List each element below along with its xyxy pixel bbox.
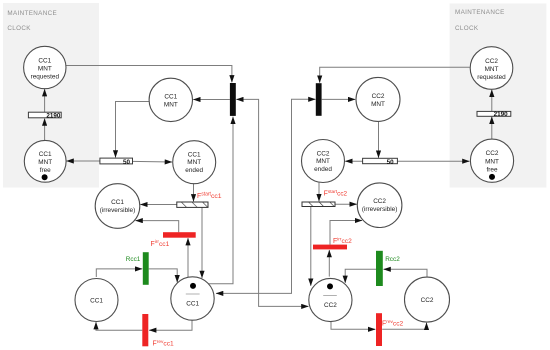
wire CC2 MNT ended -> hatched Fstart cc2 xyxy=(318,183,320,202)
transition Rcc2 green bar xyxy=(376,251,383,286)
transition hatched Fstart cc1 xyxy=(177,202,208,207)
transition 2190 right xyxy=(477,111,511,118)
wire 2190 -> CC1 MNT requested xyxy=(44,89,46,112)
svg-text:CC1: CC1 xyxy=(38,57,51,64)
wire hatched Fstart cc1 -> CC1 irreversible xyxy=(140,204,176,206)
svg-text:CC1: CC1 xyxy=(188,152,201,159)
svg-text:CC1: CC1 xyxy=(39,151,52,158)
svg-text:ended: ended xyxy=(314,166,332,173)
wire black bar T3 -> CC1 MNT xyxy=(193,99,230,101)
svg-text:MNT: MNT xyxy=(485,66,499,73)
svg-text:MNT: MNT xyxy=(485,158,499,165)
place CC1 marked xyxy=(171,277,214,320)
transition 50 right xyxy=(363,158,398,166)
svg-text:Firrcc1: Firrcc1 xyxy=(151,239,170,248)
wire 50 -> CC1 MNT ended xyxy=(133,160,172,163)
svg-text:ended: ended xyxy=(185,167,203,174)
svg-text:2190: 2190 xyxy=(494,111,509,118)
wire Frev cc1 -> CC1 plain xyxy=(96,322,142,330)
wire CC1 marked -> black bar T3 bottom xyxy=(209,117,234,284)
wire hatched Fstart cc2 -> CC2 marked xyxy=(310,206,312,285)
svg-text:MNT: MNT xyxy=(316,158,330,165)
svg-text:requested: requested xyxy=(31,73,60,80)
svg-text:CC2: CC2 xyxy=(372,93,385,100)
place CC2 MNT free xyxy=(470,139,513,182)
place CC2 plain xyxy=(405,277,450,322)
maintenance clock panel right xyxy=(450,4,547,188)
wire CC2 MNT -> 50 right xyxy=(378,122,380,158)
place CC1 irreversible xyxy=(95,184,140,229)
transition Rcc1 green bar xyxy=(143,252,149,285)
transition 2190 left xyxy=(28,112,61,119)
svg-text:(irreversible): (irreversible) xyxy=(100,207,136,214)
wire CC1 marked -> Frev cc1 xyxy=(149,320,192,330)
svg-text:50: 50 xyxy=(387,159,395,166)
svg-text:CC1: CC1 xyxy=(164,94,177,101)
transition hatched Fstart cc2 xyxy=(302,202,335,207)
wire CC2 marked -> Frev cc2 xyxy=(331,322,375,330)
svg-text:Frevcc2: Frevcc2 xyxy=(382,319,403,328)
svg-text:Rcc1: Rcc1 xyxy=(126,256,141,263)
wire CC2 plain -> Rcc2 xyxy=(384,269,427,277)
transition Firr cc1 xyxy=(163,232,196,238)
place CC2 MNT ended xyxy=(302,140,345,183)
wire CC1 marked -> Firr cc1 xyxy=(187,238,189,277)
svg-text:CC1: CC1 xyxy=(90,297,103,304)
place CC1 MNT free xyxy=(24,140,66,182)
place CC1 plain xyxy=(75,279,118,322)
wire 50 -> CC1 MNT free xyxy=(67,160,100,162)
place CC2 irreversible xyxy=(357,183,402,228)
wire black bar T10 -> CC2 MNT xyxy=(322,98,355,100)
svg-text:(irreversible): (irreversible) xyxy=(362,206,398,213)
wire CC1 MNT requested -> black bar T3 xyxy=(66,66,232,83)
transition Frev cc1 xyxy=(142,314,148,346)
wire 50 right -> CC2 MNT ended xyxy=(345,160,362,162)
transition black bar T10 xyxy=(316,83,322,116)
wire read arc CC2 <-> black bar T3 xyxy=(236,99,308,306)
svg-text:Firrcc2: Firrcc2 xyxy=(333,237,352,246)
svg-text:MNT: MNT xyxy=(38,159,52,166)
transition Frev cc2 xyxy=(376,313,382,346)
svg-text:CC2: CC2 xyxy=(324,302,337,309)
wire Rcc2 -> CC2 marked xyxy=(345,269,376,283)
wire CC1 MNT free -> 2190 xyxy=(44,119,46,141)
wire Frev cc2 -> CC2 plain xyxy=(382,323,426,330)
place CC1 MNT requested xyxy=(24,46,66,88)
svg-text:Frevcc1: Frevcc1 xyxy=(153,339,174,348)
svg-text:MAINTENANCE: MAINTENANCE xyxy=(455,9,505,16)
place CC2 MNT xyxy=(356,77,400,121)
wire read arc CC1 <-> black bar T10 xyxy=(216,99,315,293)
svg-text:CC2: CC2 xyxy=(317,150,330,157)
place CC1 MNT xyxy=(149,78,192,121)
svg-text:2190: 2190 xyxy=(46,112,61,119)
svg-text:free: free xyxy=(40,167,51,174)
wire CC2 MNT requested -> black bar T10 xyxy=(320,67,470,82)
svg-text:MNT: MNT xyxy=(38,65,52,72)
wire 50 right -> CC2 MNT free xyxy=(397,160,469,162)
svg-text:CLOCK: CLOCK xyxy=(455,25,479,32)
place CC1 MNT ended xyxy=(173,141,216,184)
svg-text:CC2: CC2 xyxy=(485,58,498,65)
svg-text:MNT: MNT xyxy=(164,102,178,109)
svg-text:CC1: CC1 xyxy=(111,199,124,206)
wire Firr cc2 -> CC2 irreversible xyxy=(330,221,362,245)
transition Firr cc2 xyxy=(313,245,347,250)
svg-text:Rcc2: Rcc2 xyxy=(385,256,400,263)
svg-text:MNT: MNT xyxy=(187,159,201,166)
maintenance clock panel left xyxy=(3,3,99,188)
transition black bar T3 xyxy=(230,83,236,116)
svg-text:CC2: CC2 xyxy=(373,198,386,205)
place CC2 marked xyxy=(309,278,352,321)
wire CC1 plain -> Rcc1 xyxy=(96,269,142,277)
wire hatched Fstart cc2 -> CC2 irreversible xyxy=(335,203,357,205)
svg-text:CLOCK: CLOCK xyxy=(7,25,31,32)
svg-text:50: 50 xyxy=(123,159,131,166)
svg-text:free: free xyxy=(486,167,497,174)
wire Firr cc1 -> CC1 irreversible xyxy=(136,221,179,233)
place CC2 MNT requested xyxy=(470,47,513,90)
transition 50 left xyxy=(100,158,133,166)
wire 2190 right -> CC2 MNT requested xyxy=(491,90,493,112)
svg-text:CC1: CC1 xyxy=(186,301,199,308)
wire Rcc1 -> CC1 marked xyxy=(149,269,178,282)
svg-text:CC2: CC2 xyxy=(486,150,499,157)
svg-text:MNT: MNT xyxy=(371,101,385,108)
wire CC1 MNT ended -> hatched Fstart cc1 xyxy=(193,184,195,202)
svg-text:requested: requested xyxy=(477,74,506,81)
wire CC2 marked -> Firr cc2 xyxy=(328,250,330,277)
wire hatched Fstart cc1 -> CC1 marked xyxy=(201,207,203,278)
svg-text:CC2: CC2 xyxy=(421,297,434,304)
wire CC1 MNT -> 50 xyxy=(116,102,150,158)
wire CC2 MNT free -> 2190 right xyxy=(491,117,493,139)
svg-text:MAINTENANCE: MAINTENANCE xyxy=(7,10,57,17)
